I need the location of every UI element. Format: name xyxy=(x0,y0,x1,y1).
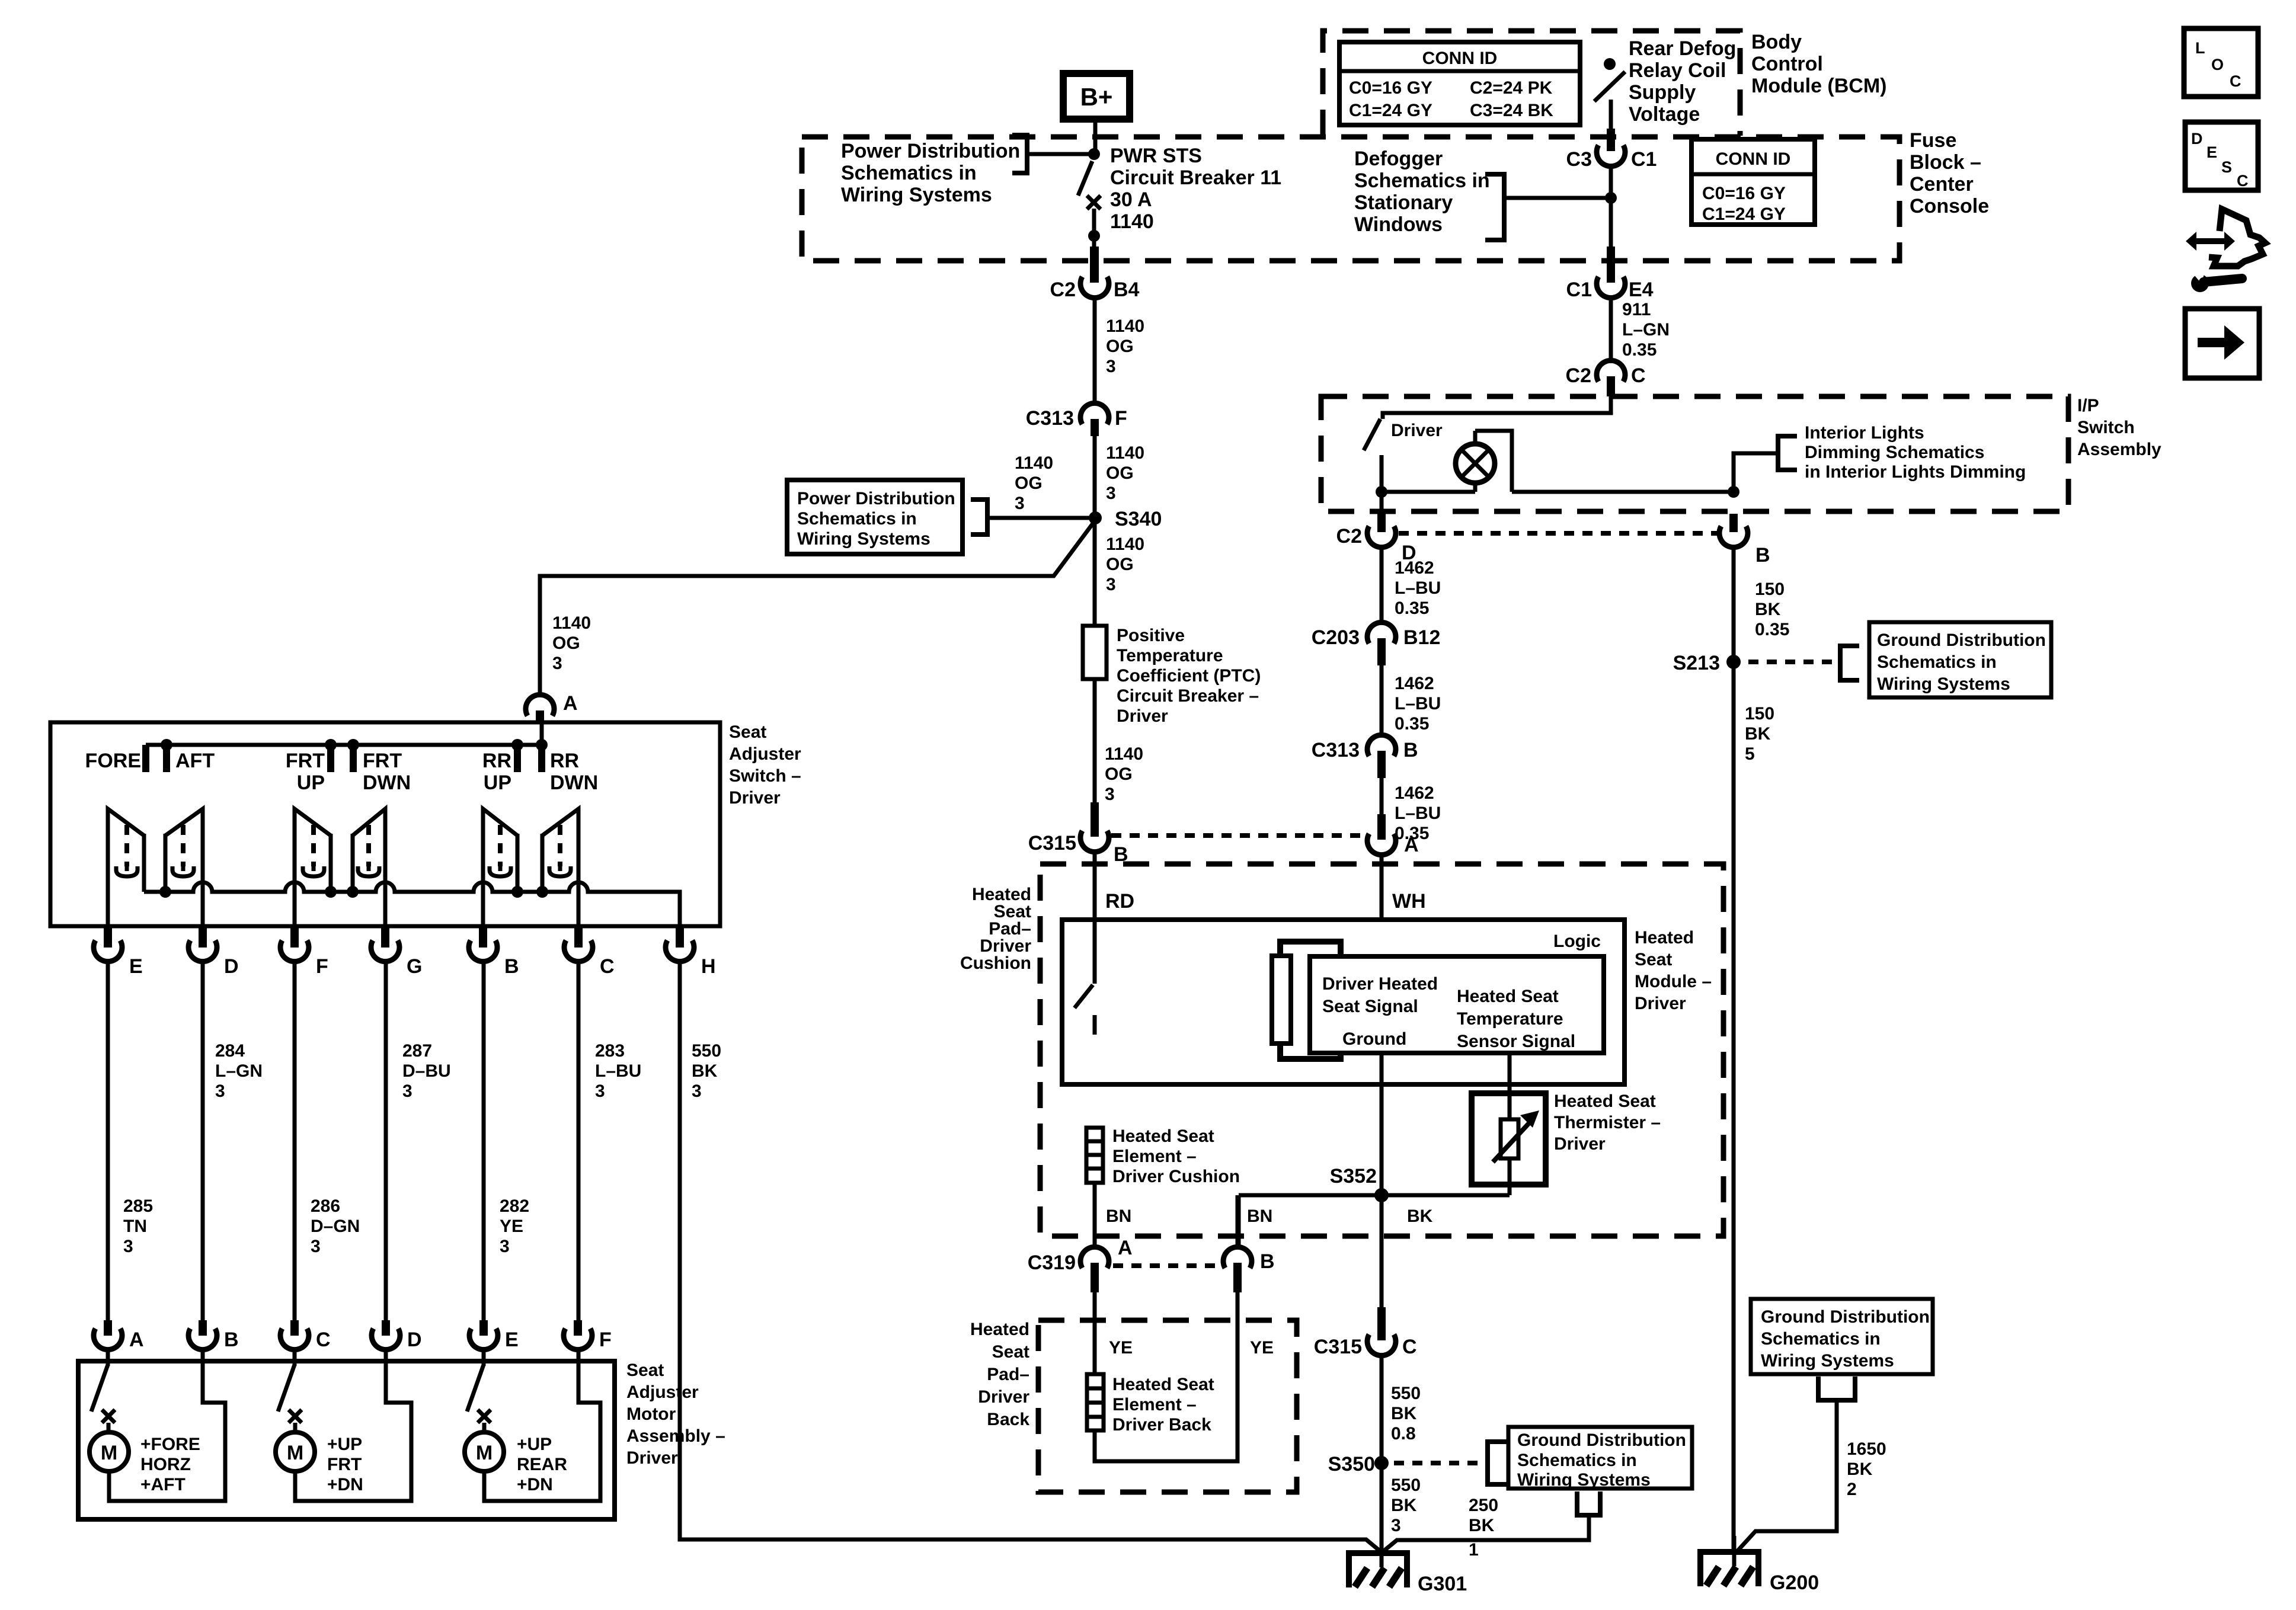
svg-text:BK: BK xyxy=(1745,724,1771,744)
wire breaker to C2 xyxy=(1092,209,1096,248)
connector C3/C1 BCM to fuse block xyxy=(1566,129,1657,171)
svg-text:Driver: Driver xyxy=(729,788,781,808)
box Ground Distribution (S350) xyxy=(1508,1427,1692,1490)
wire PTC to C315 B xyxy=(1093,679,1097,804)
wire A into switch xyxy=(540,723,544,745)
wire 1650 BK 2 to G200 xyxy=(1737,1400,1837,1552)
box Ground Distribution (S213) xyxy=(1869,622,2051,697)
svg-text:B+: B+ xyxy=(1080,83,1113,111)
logic signal box xyxy=(1310,956,1604,1053)
wire 286 D-GN 3 xyxy=(293,962,297,1334)
svg-text:OG: OG xyxy=(1106,463,1134,483)
label 1140 OG 3 below PTC xyxy=(1105,744,1143,804)
svg-text:D–BU: D–BU xyxy=(402,1061,451,1081)
wire driver switch lower xyxy=(1380,455,1384,515)
svg-text:Heated Seat: Heated Seat xyxy=(1554,1092,1656,1111)
svg-text:G301: G301 xyxy=(1418,1573,1467,1595)
connector C2 dotted link xyxy=(1399,531,1718,536)
label Heated Seat Pad Driver Cushion xyxy=(960,885,1031,973)
connector C315/A xyxy=(1367,814,1419,856)
label 285 TN 3 xyxy=(123,1196,153,1256)
label Interior Lights Dimming Schematics xyxy=(1805,423,2026,482)
svg-text:A: A xyxy=(563,692,578,715)
svg-text:CONN ID: CONN ID xyxy=(1422,49,1498,68)
motor M1 fore/aft xyxy=(89,1423,129,1471)
switch contact AFT (flag) xyxy=(165,809,203,926)
svg-text:TN: TN xyxy=(123,1217,147,1236)
svg-text:RR: RR xyxy=(550,750,579,772)
svg-text:3: 3 xyxy=(1106,484,1116,503)
motor M3 rear up/down xyxy=(465,1423,504,1471)
connector C313/F xyxy=(1026,403,1127,436)
svg-text:F: F xyxy=(599,1329,612,1351)
label Heated Seat Module Driver xyxy=(1635,928,1712,1013)
svg-text:Ground Distribution: Ground Distribution xyxy=(1877,630,2046,650)
svg-text:OG: OG xyxy=(1105,764,1133,784)
wire bracket to S340 xyxy=(987,516,1091,520)
wire element to C319 A xyxy=(1093,1183,1097,1247)
heated seat pad driver back dashed box xyxy=(1038,1320,1297,1492)
svg-text:BN: BN xyxy=(1247,1206,1272,1226)
svg-text:C2: C2 xyxy=(1050,279,1076,301)
label 911 L-GN 0.35 xyxy=(1622,300,1670,360)
svg-text:283: 283 xyxy=(595,1041,625,1061)
connector C315 dotted link xyxy=(1111,833,1366,838)
svg-text:DWN: DWN xyxy=(550,772,598,794)
motor 2 switch blade xyxy=(278,1365,295,1411)
wire 550 BK 3 (H to G301) xyxy=(680,962,1383,1554)
node RR DWN xyxy=(536,739,548,751)
svg-text:Driver: Driver xyxy=(1635,994,1686,1013)
svg-text:OG: OG xyxy=(1015,473,1043,493)
label Heated Seat Temperature Sensor Signal xyxy=(1457,987,1575,1051)
defogger reference bracket xyxy=(1485,174,1504,240)
svg-text:+UP: +UP xyxy=(517,1435,552,1454)
label 283 L-BU 3 xyxy=(595,1041,641,1101)
label 1140 OG 3 left branch xyxy=(1015,453,1053,513)
connector G xyxy=(371,927,422,978)
svg-text:E: E xyxy=(129,955,143,978)
connector C1/E4 fuse block output xyxy=(1566,247,1654,301)
bus stub AFT xyxy=(163,745,170,772)
svg-text:C1=24 GY: C1=24 GY xyxy=(1349,101,1432,120)
svg-text:Driver Heated: Driver Heated xyxy=(1322,974,1438,994)
svg-text:Dimming Schematics: Dimming Schematics xyxy=(1805,443,1984,462)
motor connector B xyxy=(188,1320,239,1351)
label I/P Switch Assembly xyxy=(2077,396,2161,459)
svg-text:150: 150 xyxy=(1755,580,1785,599)
wire lamp to dimming tap xyxy=(1512,490,1734,494)
svg-text:Sensor Signal: Sensor Signal xyxy=(1457,1032,1575,1051)
svg-text:UP: UP xyxy=(484,772,511,794)
svg-text:RR: RR xyxy=(482,750,511,772)
svg-text:550: 550 xyxy=(1391,1384,1421,1403)
svg-text:1140: 1140 xyxy=(1106,534,1144,554)
icon LOC box xyxy=(2184,28,2258,97)
svg-text:H: H xyxy=(701,955,716,978)
motor 2 return loop xyxy=(295,1365,411,1501)
svg-text:S213: S213 xyxy=(1673,652,1720,674)
wire WH xyxy=(1380,855,1384,959)
svg-text:L–BU: L–BU xyxy=(1395,804,1441,823)
svg-text:Driver: Driver xyxy=(1554,1134,1606,1154)
svg-text:1140: 1140 xyxy=(1106,316,1144,336)
icon forward arrow box xyxy=(2185,309,2259,378)
svg-text:S340: S340 xyxy=(1115,508,1162,530)
wire C2 C into I/P xyxy=(1383,396,1611,419)
svg-text:Block –: Block – xyxy=(1910,151,1981,174)
svg-text:3: 3 xyxy=(552,654,562,673)
label Heated Seat Pad Driver Back xyxy=(970,1320,1029,1429)
node bus FRT DWN xyxy=(347,886,359,898)
svg-text:YE: YE xyxy=(1250,1338,1274,1358)
svg-text:E: E xyxy=(2207,143,2217,161)
svg-text:B12: B12 xyxy=(1403,626,1440,649)
label 286 D-GN 3 xyxy=(311,1196,360,1256)
svg-text:3: 3 xyxy=(1391,1516,1401,1535)
G200 box lower bracket xyxy=(1818,1377,1855,1400)
wire 285 TN 3 xyxy=(106,962,110,1334)
wire temperature sensor signal xyxy=(1508,1053,1512,1120)
svg-text:1650: 1650 xyxy=(1847,1439,1886,1459)
svg-text:G: G xyxy=(407,955,422,978)
label 1650 BK 2 xyxy=(1847,1439,1886,1499)
svg-text:1140: 1140 xyxy=(552,613,591,633)
svg-text:Wiring Systems: Wiring Systems xyxy=(1517,1470,1651,1490)
wire to lamp xyxy=(1382,490,1475,494)
svg-text:Control: Control xyxy=(1751,53,1823,75)
label Power Distribution Schematics in Wiring Systems (top) xyxy=(841,140,1020,206)
svg-text:Relay Coil: Relay Coil xyxy=(1629,59,1726,82)
svg-text:B: B xyxy=(224,1329,239,1351)
motor 3 X mark xyxy=(478,1410,491,1423)
label 550 BK 3 xyxy=(692,1041,721,1101)
svg-text:UP: UP xyxy=(297,772,325,794)
label Heated Seat Element Driver Back xyxy=(1112,1375,1214,1435)
label 1140 OG 3 right of wire xyxy=(1106,443,1144,503)
label Seat Adjuster Motor Assembly Driver xyxy=(626,1361,725,1468)
svg-text:C203: C203 xyxy=(1312,626,1360,649)
svg-text:B: B xyxy=(1403,739,1418,761)
wire C1 to defogger splice xyxy=(1609,167,1613,249)
switch contact RR DWN (flag) xyxy=(542,809,578,926)
heated seat module logic box xyxy=(1062,920,1625,1084)
heated seat thermistor box xyxy=(1472,1093,1546,1185)
wire RD xyxy=(1093,852,1097,922)
svg-text:M: M xyxy=(476,1442,493,1464)
svg-text:L–GN: L–GN xyxy=(215,1061,263,1081)
motor 3 switch blade xyxy=(467,1365,484,1411)
svg-text:Driver Cushion: Driver Cushion xyxy=(1112,1167,1240,1186)
svg-text:Module (BCM): Module (BCM) xyxy=(1751,75,1887,97)
label 550 BK 0.8 xyxy=(1391,1384,1421,1443)
svg-text:Back: Back xyxy=(987,1410,1029,1429)
dimming lamp xyxy=(1456,431,1495,492)
svg-text:M: M xyxy=(287,1442,303,1464)
svg-text:+DN: +DN xyxy=(517,1475,553,1494)
svg-text:Heated: Heated xyxy=(1635,928,1694,948)
motor 1 switch blade xyxy=(91,1365,108,1411)
label Positive Temperature Coefficient (PTC) Circuit Breaker Driver xyxy=(1117,626,1261,726)
circuit breaker PWR STS blade xyxy=(1078,161,1092,196)
svg-text:Cushion: Cushion xyxy=(960,953,1031,973)
motor connector E xyxy=(469,1320,519,1351)
svg-text:1462: 1462 xyxy=(1395,783,1434,803)
svg-text:L: L xyxy=(2195,39,2205,57)
connector C319 dotted link xyxy=(1113,1263,1222,1268)
label Driver Heated Seat Signal Ground xyxy=(1322,974,1438,1049)
wires connectors into motor box xyxy=(108,1350,578,1366)
svg-text:282: 282 xyxy=(500,1196,529,1216)
svg-text:1462: 1462 xyxy=(1395,674,1434,693)
svg-text:REAR: REAR xyxy=(517,1455,567,1474)
svg-text:284: 284 xyxy=(215,1041,245,1061)
svg-text:+AFT: +AFT xyxy=(140,1475,186,1494)
connector C319/A xyxy=(1028,1237,1133,1292)
battery feed B+ box xyxy=(1063,73,1130,119)
svg-text:Driver Back: Driver Back xyxy=(1112,1415,1211,1435)
svg-text:AFT: AFT xyxy=(175,750,215,772)
heated seat element driver back xyxy=(1087,1374,1104,1430)
connector C313/B xyxy=(1312,735,1418,778)
node RR UP xyxy=(511,739,523,751)
svg-text:Circuit Breaker –: Circuit Breaker – xyxy=(1117,686,1259,706)
wire S340 branch to seat switch xyxy=(540,523,1093,696)
svg-text:FRT: FRT xyxy=(286,750,325,772)
svg-text:1140: 1140 xyxy=(1110,210,1154,233)
svg-text:O: O xyxy=(2211,56,2224,73)
svg-text:3: 3 xyxy=(692,1081,702,1101)
riser to interior lights bracket xyxy=(1734,453,1778,492)
svg-text:BK: BK xyxy=(1847,1459,1873,1479)
wire element back return loop xyxy=(1095,1292,1237,1461)
wire 284 L-GN 3 xyxy=(201,962,205,1334)
svg-text:PWR STS: PWR STS xyxy=(1110,145,1202,167)
svg-text:Fuse: Fuse xyxy=(1910,129,1956,152)
svg-text:Element –: Element – xyxy=(1112,1395,1197,1414)
wire 1462 L-BU 0.35 first xyxy=(1380,548,1384,622)
svg-text:Ground: Ground xyxy=(1342,1029,1406,1049)
motor connector D xyxy=(372,1320,422,1351)
svg-text:1462: 1462 xyxy=(1395,558,1434,578)
svg-text:WH: WH xyxy=(1392,890,1426,913)
svg-text:3: 3 xyxy=(595,1081,605,1101)
svg-text:3: 3 xyxy=(500,1237,510,1256)
svg-text:C1: C1 xyxy=(1566,279,1592,301)
svg-text:F: F xyxy=(316,955,328,978)
svg-text:Voltage: Voltage xyxy=(1629,103,1700,126)
label 1462 L-BU 0.35 xyxy=(1395,783,1441,843)
S213 ground bracket xyxy=(1840,646,1859,680)
svg-text:in Interior Lights Dimming: in Interior Lights Dimming xyxy=(1805,462,2026,482)
driver switch blade xyxy=(1364,419,1380,450)
node S340 xyxy=(1089,508,1162,530)
svg-text:Heated Seat: Heated Seat xyxy=(1112,1126,1214,1146)
svg-text:M: M xyxy=(101,1442,117,1464)
svg-text:C2: C2 xyxy=(1336,525,1362,548)
second CONN ID table (fuse block) xyxy=(1691,139,1815,225)
svg-text:RD: RD xyxy=(1105,890,1134,913)
svg-text:S: S xyxy=(2221,158,2232,176)
label 284 L-GN 3 xyxy=(215,1041,263,1101)
svg-text:L–BU: L–BU xyxy=(1395,578,1441,598)
switch contact FRT UP (flag) xyxy=(295,809,331,926)
wire 283 L-BU 3 xyxy=(577,962,581,1334)
svg-text:Assembly –: Assembly – xyxy=(626,1426,725,1446)
svg-text:C1=24 GY: C1=24 GY xyxy=(1702,204,1786,224)
dashed link S350 to ground ref xyxy=(1394,1461,1488,1465)
wire 911 to fuse bottom xyxy=(1609,198,1613,249)
svg-text:Positive: Positive xyxy=(1117,626,1185,645)
svg-text:BK: BK xyxy=(1469,1516,1495,1535)
connector C319/B xyxy=(1223,1247,1275,1292)
label 1140 OG 3 (switch feed) xyxy=(552,613,591,673)
ground G200 xyxy=(1697,1536,1819,1594)
module internal connector symbol xyxy=(1272,942,1341,1059)
connector D xyxy=(188,927,239,978)
svg-text:G200: G200 xyxy=(1770,1571,1819,1594)
svg-text:Driver: Driver xyxy=(1391,421,1443,440)
label FRT UP xyxy=(286,750,325,794)
svg-text:E: E xyxy=(505,1329,519,1351)
svg-text:C313: C313 xyxy=(1312,739,1360,761)
svg-text:Stationary: Stationary xyxy=(1354,191,1453,214)
svg-text:Ground Distribution: Ground Distribution xyxy=(1517,1430,1686,1450)
node FRT UP xyxy=(325,739,337,751)
svg-text:C: C xyxy=(2230,72,2241,90)
svg-text:Windows: Windows xyxy=(1354,213,1443,236)
svg-text:C319: C319 xyxy=(1028,1251,1076,1274)
connector B xyxy=(469,927,519,978)
svg-text:287: 287 xyxy=(402,1041,432,1061)
svg-text:Power Distribution: Power Distribution xyxy=(797,489,955,508)
svg-text:BN: BN xyxy=(1106,1206,1131,1226)
svg-text:2: 2 xyxy=(1847,1480,1857,1499)
svg-text:911: 911 xyxy=(1622,300,1651,319)
svg-text:Console: Console xyxy=(1910,195,1989,217)
svg-text:1140: 1140 xyxy=(1106,443,1144,463)
connector C315/B xyxy=(1028,802,1128,866)
label PWR STS Circuit Breaker 11 30 A 1140 xyxy=(1110,145,1281,233)
label +UP REAR +DN xyxy=(517,1435,567,1494)
svg-text:BK: BK xyxy=(1391,1496,1417,1515)
motor 2 X mark xyxy=(289,1410,302,1423)
svg-text:Heated: Heated xyxy=(970,1320,1029,1339)
wire 911 L-GN 0.35 xyxy=(1609,297,1613,360)
svg-text:E4: E4 xyxy=(1629,279,1654,301)
svg-text:Schematics in: Schematics in xyxy=(1761,1329,1881,1349)
power distribution bracket (S340) xyxy=(971,500,987,534)
svg-text:Driver: Driver xyxy=(1117,706,1168,726)
wire 1462 L-BU 0.35 second xyxy=(1380,665,1384,734)
connector C203/B12 xyxy=(1312,622,1441,665)
S350 ground bracket xyxy=(1488,1442,1508,1484)
switch bottom bus with hops xyxy=(144,882,680,926)
switch contact RR UP (flag) xyxy=(483,809,517,926)
motor connector A xyxy=(94,1320,144,1351)
CONN ID table (BCM) xyxy=(1339,42,1580,125)
svg-text:D: D xyxy=(224,955,239,978)
svg-text:3: 3 xyxy=(402,1081,412,1101)
svg-text:Defogger: Defogger xyxy=(1354,148,1443,170)
label Heated Seat Element Driver Cushion xyxy=(1112,1126,1240,1186)
lamp series jog xyxy=(1475,431,1512,492)
dashed link S213 to ground ref xyxy=(1748,660,1840,664)
wire 1140 OG 3 (C2 B4 to C313 F) xyxy=(1093,297,1097,403)
label 282 YE 3 xyxy=(500,1196,529,1256)
node bus RR UP xyxy=(511,886,523,898)
svg-text:B: B xyxy=(1755,544,1770,566)
switch contact FORE (flag) xyxy=(108,809,144,926)
wire B+ to breaker xyxy=(1093,119,1098,156)
node bus RR DWN xyxy=(536,886,548,898)
svg-text:BK: BK xyxy=(1407,1206,1433,1226)
svg-text:0.35: 0.35 xyxy=(1622,340,1657,360)
I/P switch assembly dashed box xyxy=(1321,396,2068,511)
node AFT xyxy=(161,739,172,751)
label 1140 OG 3 below S340 xyxy=(1106,534,1144,594)
svg-text:C0=16 GY: C0=16 GY xyxy=(1702,184,1786,203)
body control module BCM dashed box xyxy=(1323,31,1740,136)
thermistor resistor xyxy=(1493,1110,1539,1195)
svg-text:5: 5 xyxy=(1745,744,1755,764)
node bus AFT xyxy=(159,886,171,898)
svg-text:C: C xyxy=(1402,1336,1417,1358)
label +UP FRT +DN xyxy=(327,1435,363,1494)
bus stub RR DWN xyxy=(538,745,545,772)
seat adjuster motor assembly box xyxy=(78,1361,615,1519)
svg-text:FORE: FORE xyxy=(85,750,141,772)
svg-text:HORZ: HORZ xyxy=(140,1455,191,1474)
svg-text:YE: YE xyxy=(500,1217,523,1236)
label 287 D-BU 3 xyxy=(402,1041,451,1101)
svg-text:3: 3 xyxy=(1105,785,1115,804)
svg-text:3: 3 xyxy=(215,1081,225,1101)
svg-text:C: C xyxy=(1631,364,1646,387)
svg-text:C2: C2 xyxy=(1566,364,1591,387)
svg-text:Center: Center xyxy=(1910,173,1974,196)
svg-text:Wiring Systems: Wiring Systems xyxy=(1761,1351,1894,1371)
svg-text:30 A: 30 A xyxy=(1110,188,1152,211)
label Heated Seat Thermister Driver xyxy=(1554,1092,1661,1154)
svg-text:I/P: I/P xyxy=(2077,396,2099,415)
node dimming tap xyxy=(1728,486,1739,498)
label 150 BK 5 xyxy=(1745,704,1774,764)
wire ground output xyxy=(1380,1053,1384,1310)
svg-text:3: 3 xyxy=(1015,494,1025,513)
bus stub RR UP xyxy=(514,745,521,772)
svg-text:Assembly: Assembly xyxy=(2077,440,2161,459)
wire C319 A to element back xyxy=(1093,1292,1097,1375)
svg-text:+UP: +UP xyxy=(327,1435,362,1454)
svg-text:Temperature: Temperature xyxy=(1117,646,1223,665)
motor connector F xyxy=(564,1320,612,1351)
heated seat module dashed box xyxy=(1040,864,1723,1236)
svg-text:Interior Lights: Interior Lights xyxy=(1805,423,1924,443)
label Rear Defog Relay Coil Supply Voltage xyxy=(1629,37,1736,126)
label 250 BK 1 xyxy=(1469,1496,1498,1560)
label Fuse Block Center Console xyxy=(1910,129,1989,217)
svg-text:Wiring Systems: Wiring Systems xyxy=(797,529,930,549)
wire 282 YE 3 xyxy=(482,962,486,1334)
svg-text:+DN: +DN xyxy=(327,1475,363,1494)
svg-text:Schematics in: Schematics in xyxy=(841,162,977,184)
svg-text:Heated Seat: Heated Seat xyxy=(1457,987,1559,1006)
PTC circuit breaker driver xyxy=(1083,626,1107,679)
svg-text:C3: C3 xyxy=(1566,148,1592,171)
connector C315/C xyxy=(1314,1307,1417,1358)
connector H xyxy=(666,927,716,978)
